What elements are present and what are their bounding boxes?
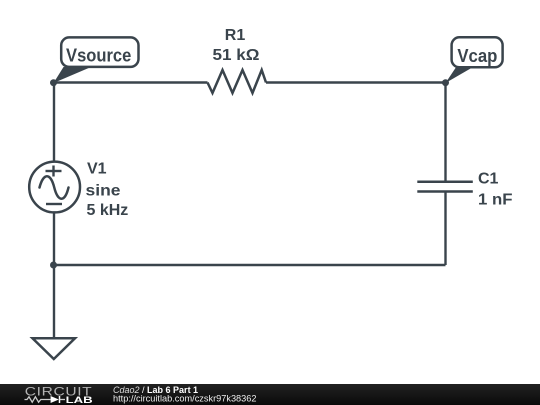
svg-text:Vsource: Vsource xyxy=(66,46,131,66)
wire top: Vsource node to resistor left lead xyxy=(54,81,208,83)
wire ground stem xyxy=(53,265,55,338)
wire left vertical: V1 bottom to bottom rail xyxy=(53,212,55,266)
Vcap flag pointer xyxy=(446,67,475,84)
Vcap flag box xyxy=(452,37,503,67)
wire right vertical: C1 bottom plate to bottom rail xyxy=(444,192,446,266)
node bottom-left junction dot xyxy=(50,262,57,269)
svg-text:51 kΩ: 51 kΩ xyxy=(213,47,260,64)
svg-text:5 kHz: 5 kHz xyxy=(87,202,129,219)
svg-text:1 nF: 1 nF xyxy=(478,191,513,208)
svg-text:R1: R1 xyxy=(225,27,246,44)
svg-text:sine: sine xyxy=(86,183,121,200)
voltage source V1 circle xyxy=(29,162,80,213)
svg-text:V1: V1 xyxy=(87,161,107,178)
svg-text:http://circuitlab.com/czskr97k: http://circuitlab.com/czskr97k38362 xyxy=(113,393,257,403)
svg-text:Vcap: Vcap xyxy=(457,46,497,66)
capacitor C1 top plate xyxy=(417,181,473,184)
wire right vertical: Vcap node down to C1 top plate xyxy=(444,83,446,182)
wire top: resistor right lead to Vcap node xyxy=(266,81,446,83)
Vsource flag box xyxy=(61,37,138,67)
capacitor C1 bottom plate xyxy=(417,190,473,193)
footer bar xyxy=(0,384,540,405)
V1 minus sign xyxy=(46,203,62,205)
CircuitLab logo diode xyxy=(51,396,59,403)
svg-text:LAB: LAB xyxy=(66,395,94,405)
node Vsource junction dot xyxy=(50,79,57,86)
resistor R1 xyxy=(208,70,267,93)
V1 plus sign xyxy=(46,170,62,172)
CircuitLab logo resistor zigzag xyxy=(25,397,51,402)
Vsource flag pointer xyxy=(54,67,92,83)
node Vcap junction dot xyxy=(442,79,449,86)
wire bottom rail xyxy=(54,264,446,266)
svg-text:C1: C1 xyxy=(478,170,499,187)
ground symbol xyxy=(33,338,76,359)
V1 sine glyph xyxy=(40,176,69,199)
wire left vertical: Vsource node down to V1 top xyxy=(53,83,55,163)
